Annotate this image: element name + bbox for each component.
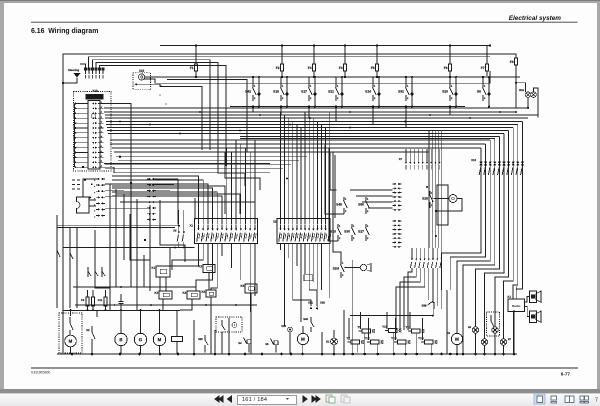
relay K2 — [203, 265, 215, 273]
lamp E15 — [525, 92, 531, 98]
wire: below X2 drops — [280, 244, 282, 251]
switch S20 — [449, 77, 451, 84]
wire: valve drops to ground bus — [364, 333, 366, 353]
horn B2 inside X19 — [139, 74, 145, 80]
connector X16 — [288, 327, 293, 332]
motor M1 — [65, 335, 77, 347]
valve Y1 — [172, 337, 183, 342]
switch S28 — [429, 191, 431, 195]
wire: fuse F8 drop — [515, 70, 517, 108]
switch S18 — [337, 224, 339, 228]
svg-text:G: G — [139, 337, 143, 342]
svg-text:11: 11 — [100, 151, 102, 153]
svg-text:1: 1 — [407, 85, 409, 88]
switch S16 — [280, 77, 282, 84]
svg-text:1: 1 — [345, 198, 347, 201]
svg-text:F8: F8 — [510, 60, 514, 64]
svg-text:9: 9 — [101, 141, 102, 143]
wire: X10 row corners down — [104, 104, 132, 184]
svg-text:2: 2 — [407, 97, 409, 100]
wire: X5 drops to S22 area — [408, 268, 412, 330]
svg-text:13: 13 — [100, 161, 102, 163]
svg-text:1: 1 — [310, 85, 312, 88]
pressure unit (dashed box) — [216, 317, 242, 332]
wire: radio feeds from staircase — [512, 290, 514, 299]
svg-text:1: 1 — [101, 102, 102, 104]
junction dot F8 drop — [515, 82, 517, 84]
wire: extra K1 feeds — [169, 248, 171, 266]
svg-text:S4: S4 — [238, 341, 242, 345]
connector X2 housing — [277, 219, 330, 244]
motor M2 — [115, 333, 127, 345]
wire: E1 feed — [333, 330, 335, 338]
junction dots X11 feeds — [84, 179, 86, 181]
svg-text:F2: F2 — [276, 66, 280, 70]
svg-text:a: a — [94, 180, 96, 182]
svg-text:Steering: Steering — [68, 68, 80, 72]
svg-text:5: 5 — [101, 121, 102, 123]
connector X12 pin column — [149, 178, 151, 180]
connector X5 pin row lower right — [411, 248, 413, 259]
wire: X19 lead 1 (long bus) — [145, 76, 520, 78]
switch S27 — [365, 224, 367, 228]
diode V1 — [304, 275, 313, 281]
buzzer H2 — [360, 264, 366, 270]
connector X5 two pins — [178, 210, 180, 232]
svg-text:E15: E15 — [519, 88, 524, 92]
svg-text:2: 2 — [337, 97, 339, 100]
svg-text:a: a — [94, 186, 96, 188]
wire: lamp feeds from staircase — [446, 290, 448, 354]
wire: S45 feed staircase from left — [325, 145, 344, 214]
sensor B3 inside — [232, 323, 237, 328]
wire: fuse output bus — [145, 76, 520, 78]
wire: x57 stub — [56, 215, 58, 243]
wire: switch output bus — [230, 106, 465, 108]
svg-text:2: 2 — [282, 97, 284, 100]
junction dot X2 drop — [286, 178, 288, 180]
wire: X12 verticals down — [177, 179, 179, 225]
switch inside W2 — [69, 317, 71, 323]
svg-text:F6: F6 — [444, 66, 448, 70]
svg-text:S40: S40 — [303, 317, 308, 321]
connector pins left of X11 — [72, 179, 75, 181]
wire: second supply bus — [89, 56, 490, 58]
junction dot lamp drop — [527, 107, 529, 109]
svg-text:a: a — [94, 216, 96, 218]
fuse F6 — [448, 64, 451, 71]
motor M5 — [297, 333, 308, 344]
junction dot at X5 feed — [178, 225, 180, 227]
svg-text:X91: X91 — [308, 301, 313, 305]
junction dots bottom distribution — [70, 309, 72, 311]
switch S2H — [340, 261, 342, 265]
wire: harness into X14 pins — [88, 57, 90, 68]
svg-text:2: 2 — [367, 237, 369, 240]
relay K1 — [156, 266, 170, 277]
svg-text:F4: F4 — [339, 66, 343, 70]
wire: center nested routing upper — [218, 150, 245, 186]
valve Y13 — [398, 340, 407, 344]
svg-text:S21: S21 — [328, 89, 334, 93]
svg-text:S20: S20 — [442, 89, 448, 93]
svg-text:X10: X10 — [92, 89, 98, 93]
junction dots X19 leads — [160, 86, 162, 88]
junction dots on switch output bus — [252, 105, 254, 107]
fuse F5 — [375, 64, 378, 71]
connector X19 (dashed box) — [133, 73, 151, 90]
wire: X1 drops from above — [226, 148, 228, 224]
svg-text:2: 2 — [101, 107, 102, 109]
svg-text:S42: S42 — [245, 89, 251, 93]
wire: X2 drops from above — [280, 112, 282, 224]
svg-text:1: 1 — [337, 85, 339, 88]
toolbar nav buttons — [215, 396, 320, 402]
connector X8 pin column upper — [395, 183, 397, 185]
footer rule — [31, 367, 578, 369]
switch S70 (dashed box) — [487, 312, 500, 336]
svg-text:K5: K5 — [201, 290, 205, 294]
svg-text:S45: S45 — [336, 202, 342, 206]
svg-text:2: 2 — [484, 97, 486, 100]
connector X14 square pins — [84, 68, 86, 70]
svg-text:F7: F7 — [481, 66, 485, 70]
svg-text:8: 8 — [101, 136, 102, 138]
svg-text:K6: K6 — [240, 284, 244, 288]
svg-text:Y7: Y7 — [346, 336, 350, 340]
switch S50 — [365, 197, 367, 201]
svg-text:S88: S88 — [422, 303, 427, 307]
svg-text:X2: X2 — [273, 219, 277, 223]
svg-text:Electrical system: Electrical system — [509, 15, 562, 22]
svg-text:10: 10 — [100, 146, 102, 148]
wire: X11 row stubs to verticals — [105, 183, 116, 185]
fuse F7 — [485, 64, 488, 71]
layout icon two pages — [565, 396, 570, 403]
header rule — [31, 21, 578, 23]
relay K6 — [245, 284, 257, 293]
switch S6 — [482, 77, 484, 84]
fuse F3 — [312, 64, 315, 71]
svg-text:1: 1 — [367, 225, 369, 228]
svg-text:2: 2 — [254, 97, 256, 100]
snapshot icon 1 — [326, 395, 335, 403]
motor M3 — [134, 333, 146, 345]
fuse F11 — [104, 297, 107, 306]
fuse F4 — [343, 64, 346, 71]
switch S3 inside — [221, 320, 223, 325]
wire: M5 feed — [302, 326, 304, 333]
svg-text:1: 1 — [451, 85, 453, 88]
left switch S1 — [56, 243, 58, 250]
svg-text:S17: S17 — [301, 89, 307, 93]
wire: top feed bus — [160, 45, 490, 47]
wire: left border to bottom — [62, 83, 64, 354]
fuse F10 — [92, 297, 95, 306]
svg-text:2: 2 — [339, 237, 341, 240]
svg-text:3: 3 — [101, 112, 102, 114]
wire: M6 feed — [456, 290, 458, 333]
switch S17 — [308, 77, 310, 84]
connector X8 pin column lower — [395, 220, 397, 222]
svg-text:E9: E9 — [468, 326, 472, 329]
svg-text:2: 2 — [310, 97, 312, 100]
relay K5 — [206, 290, 216, 297]
wire: S88 distribution line — [350, 315, 433, 317]
terminal strip X10 (dashed box) — [74, 92, 112, 172]
wire: X12 row tails — [156, 178, 178, 180]
svg-text:M: M — [158, 337, 162, 342]
svg-text:2: 2 — [367, 210, 369, 213]
svg-text:F11: F11 — [98, 298, 103, 302]
svg-text:2: 2 — [374, 97, 376, 100]
wire: long mid verticals to ground — [352, 260, 354, 353]
svg-text:X92: X92 — [320, 301, 325, 305]
relay K3 — [159, 291, 172, 299]
valve Y12 — [371, 340, 380, 344]
svg-text:S91: S91 — [398, 89, 404, 93]
wire: component drops to ground bus — [70, 347, 72, 354]
wire: left nested routing lower — [95, 230, 110, 310]
svg-text:F9: F9 — [81, 298, 85, 302]
wire: left risers to bottom section — [56, 228, 58, 308]
svg-text:A1: A1 — [507, 295, 511, 299]
lamp E11 — [492, 327, 498, 333]
wire: X19 lead 3 — [137, 84, 202, 150]
svg-text:K4: K4 — [182, 291, 186, 295]
resistor block R1 — [86, 95, 103, 100]
svg-text:M: M — [455, 337, 459, 342]
svg-text:1: 1 — [374, 85, 376, 88]
relay socket K7 outline — [77, 197, 90, 213]
wire: horn feed — [433, 198, 449, 200]
svg-text:F5: F5 — [371, 66, 375, 70]
svg-text:E1: E1 — [326, 339, 330, 343]
svg-text:S16: S16 — [273, 89, 279, 93]
junction dots center right — [426, 186, 428, 188]
wire: main supply bus top border — [63, 54, 516, 83]
svg-text:S2F: S2F — [198, 337, 203, 341]
svg-text:F1: F1 — [190, 66, 194, 70]
wire: steering drop to border — [63, 78, 77, 84]
wire: S45 link to X8 — [350, 189, 393, 191]
connector X1 pin row — [198, 225, 200, 230]
small switch S35 — [101, 267, 103, 277]
wire: radio to speakers — [525, 297, 530, 303]
small switch S34 — [94, 267, 96, 277]
wire: left mid verticals to distribution — [109, 184, 111, 310]
snapshot icon 2 (disabled) — [341, 395, 350, 403]
valve Y7 — [351, 340, 360, 344]
motor M4 — [153, 333, 165, 345]
svg-text:X19: X19 — [139, 69, 145, 73]
junction dots left cluster — [82, 166, 84, 168]
svg-text:X7: X7 — [399, 157, 403, 161]
speaker B6 — [530, 311, 537, 323]
relay K4 — [187, 291, 200, 299]
wire: mid harness horizontals left half — [110, 139, 490, 141]
svg-text:S30: S30 — [344, 229, 350, 233]
fuse F8 — [514, 58, 517, 65]
lamp E10 — [481, 339, 487, 345]
wire: switch drops to central bundle — [252, 107, 254, 113]
wire: nested routing X10 to X1 feeds — [112, 176, 199, 224]
connector X1 housing — [195, 219, 258, 244]
wire: long left horizontals — [57, 227, 175, 229]
svg-text:S2H: S2H — [333, 266, 340, 270]
switch S14 — [372, 77, 374, 84]
svg-text:6-77: 6-77 — [561, 371, 571, 376]
svg-text:X1: X1 — [189, 223, 193, 227]
svg-text:2: 2 — [345, 210, 347, 213]
wire: radio ground drop — [513, 312, 515, 355]
layout icon two-page continuous — [580, 396, 584, 400]
wire: buzzer link — [344, 267, 360, 269]
svg-text:S6: S6 — [477, 89, 481, 93]
wire: risers from distribution to components — [70, 310, 72, 316]
pin X19-1 — [135, 83, 138, 85]
svg-text:F3: F3 — [308, 66, 312, 70]
wire: lamp drop — [527, 98, 529, 108]
svg-text:1: 1 — [484, 85, 486, 88]
junction dots on top feed bus — [195, 44, 197, 46]
svg-text:K3: K3 — [154, 291, 158, 295]
terminal strip X10 body — [88, 101, 100, 170]
connector X2 pin row — [280, 225, 282, 230]
wire: central bus bundle — [104, 107, 528, 109]
svg-text:2: 2 — [451, 97, 453, 100]
wire: lamp pair feed elbow — [516, 83, 526, 92]
wire: X13 riser bundle verticals — [480, 148, 482, 250]
switch S30 — [351, 224, 353, 228]
svg-text:2: 2 — [342, 274, 344, 277]
junction dots on central bundle — [199, 111, 201, 113]
junction dots on y305 wire — [114, 304, 116, 306]
svg-text:1: 1 — [342, 262, 344, 265]
small switch S33 — [87, 267, 89, 277]
horn H1 — [449, 195, 457, 203]
wire: left bottom distribution — [63, 310, 180, 312]
wire: pressure unit drop — [221, 332, 223, 354]
svg-text:Y14: Y14 — [418, 336, 424, 340]
svg-text:1: 1 — [254, 85, 256, 88]
junction dot on left border — [62, 82, 64, 84]
wire: relay links to X11 — [89, 199, 96, 201]
wire: right bundle staircase to bottom row — [442, 250, 481, 290]
junction dots on ground bus — [71, 353, 74, 356]
switch S40 — [310, 317, 312, 322]
wire: horn right loop — [436, 199, 462, 212]
svg-text:S27: S27 — [358, 229, 364, 233]
switch S91 — [405, 77, 407, 84]
lamp E16 — [531, 92, 537, 98]
lamp E1 — [331, 338, 338, 345]
radio A1 — [508, 299, 525, 312]
svg-text:X5: X5 — [173, 228, 177, 232]
svg-text:1: 1 — [339, 225, 341, 228]
svg-text:1: 1 — [353, 225, 355, 228]
nav dropdown arrow — [286, 398, 289, 400]
left switch S8 — [69, 247, 71, 253]
svg-text:X13: X13 — [471, 158, 476, 162]
motor M6 — [451, 333, 462, 344]
svg-text:2: 2 — [353, 237, 355, 240]
fuse F9 — [86, 297, 89, 306]
svg-text:1: 1 — [282, 85, 284, 88]
connector X11 pin column — [98, 178, 100, 180]
switch S21 — [335, 77, 337, 84]
svg-text:6.16 Wiring diagram: 6.16 Wiring diagram — [31, 28, 98, 35]
svg-text:a: a — [94, 210, 96, 212]
wire: X10 left rail — [74, 104, 76, 168]
layout icon continuous — [551, 396, 557, 400]
svg-text:Y12: Y12 — [364, 336, 370, 340]
wire: relay K1 drops — [159, 277, 161, 291]
wire: center risers to X5 row — [428, 131, 430, 248]
wire: below X1 drops to relays — [170, 244, 199, 267]
svg-text:X16: X16 — [281, 324, 286, 328]
svg-text:K1: K1 — [151, 266, 155, 270]
valve Y9 — [362, 329, 371, 333]
svg-text:1: 1 — [367, 198, 369, 201]
switch S45 — [343, 197, 345, 201]
svg-text:K2: K2 — [198, 264, 202, 268]
wiper unit W2 (dashed box) — [59, 313, 82, 353]
svg-text:S2: S2 — [86, 328, 90, 332]
wire: harness loop to X2 feeds — [167, 80, 247, 152]
svg-text:M: M — [301, 337, 305, 342]
switch S42 — [252, 77, 254, 84]
svg-text:E7: E7 — [508, 338, 512, 341]
svg-text:12: 12 — [100, 156, 102, 158]
svg-text:7: 7 — [595, 398, 598, 404]
svg-text:M: M — [69, 339, 73, 344]
wire: ground bus bottom — [57, 353, 517, 355]
svg-text:7: 7 — [101, 131, 102, 133]
wire: valve feeds from above — [360, 312, 362, 329]
svg-text:B: B — [119, 337, 122, 342]
relay box K8 — [437, 185, 448, 225]
svg-text:S28: S28 — [422, 196, 428, 200]
switch S2 — [91, 326, 93, 332]
capacitor C1 — [120, 294, 122, 302]
svg-text:6: 6 — [101, 126, 102, 128]
wire: lamp loop right — [534, 88, 539, 117]
svg-text:Radio: Radio — [512, 304, 521, 308]
lamp E7 — [500, 339, 506, 345]
valve Y11 — [412, 329, 421, 333]
svg-text:9.81190/5800: 9.81190/5800 — [31, 371, 50, 375]
fuse F1 — [194, 64, 197, 71]
layout icon single page (selected) — [534, 394, 545, 404]
lamp inside X10 strip — [91, 114, 95, 118]
svg-text:a: a — [94, 192, 96, 194]
svg-text:S14: S14 — [365, 89, 371, 93]
svg-text:S5: S5 — [265, 342, 269, 346]
X10 pin rows — [75, 103, 77, 105]
valve Y14 — [425, 340, 434, 344]
speaker B5 — [530, 291, 537, 303]
valve Y10 — [389, 328, 398, 332]
svg-text:S50: S50 — [358, 202, 364, 206]
lamp E9 — [472, 327, 478, 333]
wire: X19 lead 2 — [144, 71, 490, 83]
wire: lower-left ground run — [63, 247, 195, 249]
junction dots on fuse output bus — [195, 76, 197, 78]
fuse F2 — [280, 64, 283, 71]
